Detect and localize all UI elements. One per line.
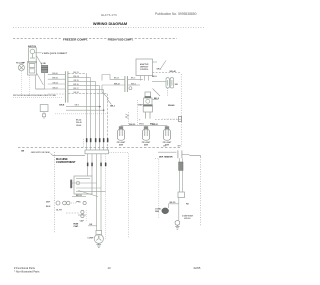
svg-text:OR-15: OR-15 [73,80,78,82]
dashed drop center 2 [137,100,139,126]
wire bend left 2 [101,75,103,81]
wire to x158 drop [155,158,159,218]
cold control box [74,176,92,194]
svg-text:# Functional Parts: # Functional Parts [14,266,36,270]
ice maker plug [41,65,47,72]
freezer lamp [18,65,24,71]
overload circle 2 [66,201,70,205]
wire lower B [66,109,104,111]
wire R6 from terminal board [68,93,108,95]
evap fan body [143,105,152,112]
svg-text:SW: SW [175,84,178,86]
small circle node [129,87,132,90]
wire W5 dashed [48,93,65,95]
dashed wire under fan [155,119,181,121]
svg-text:WH-22: WH-22 [114,83,120,85]
cabinet border dashed right [180,74,182,147]
overload circle 1 [63,201,67,205]
svg-text:BK-13: BK-13 [73,72,78,74]
ADC lead 3 [148,76,150,81]
svg-text:WH-14: WH-14 [73,75,79,78]
cond fan feed [169,204,179,208]
run capacitor circles [81,210,84,213]
machine compartment dashed line [18,146,181,148]
ground right [175,225,179,229]
junction dot B [103,109,105,111]
dashed link [66,212,80,214]
cold control bellows [76,181,80,185]
drop wire 4 [100,154,102,231]
center connector J2 [125,76,128,92]
svg-text:FRESH FOOD COMPT.: FRESH FOOD COMPT. [108,38,134,42]
solid wire to compartment [53,155,85,157]
svg-text:· SEE NOTE ON PAGE: · SEE NOTE ON PAGE [30,151,51,154]
svg-text:13: 13 [108,266,111,270]
dashed wire right [153,72,182,74]
defrost limit squiggle [125,114,128,119]
drop tag 2 [91,163,93,167]
heater bottom box [178,192,184,198]
compressor terminal box [96,230,102,235]
svg-text:BK-3: BK-3 [131,78,135,80]
evap fan body top strip [143,105,152,107]
vertical harness V3 [95,82,97,150]
FF door switch [166,78,174,88]
lamp wire across [121,124,167,126]
terminal board J1 [65,71,68,102]
svg-text:GN-1: GN-1 [110,106,116,108]
wire R1 from terminal board [68,73,87,75]
svg-text:WH-4: WH-4 [131,82,136,85]
evap fan lead right [152,99,158,101]
evap fan motor [144,98,152,105]
wire to compressor [88,225,97,227]
wire W3 to terminal board [48,83,65,85]
svg-text:* Non-Illustrated Parts: * Non-Illustrated Parts [14,269,40,273]
drop wire 2 [91,154,93,176]
svg-text:# WITH QUICK CONNECT: # WITH QUICK CONNECT [42,53,68,55]
ADC lead 1 [140,76,142,81]
svg-text:GN-63: GN-63 [52,87,57,89]
dotted drop from lamp [21,71,23,97]
wire below door switch [167,88,169,96]
svg-text:RD-17: RD-17 [73,88,78,90]
cold control line 1 [76,178,90,180]
drop wire 1 [87,154,89,176]
svg-text:WH-40: WH-40 [170,70,177,73]
adaptive defrost control box [136,59,153,76]
FF lamp 1 [117,127,124,141]
svg-text:EVAP: EVAP [138,103,144,106]
wire center top [102,75,125,80]
svg-text:BK-5: BK-5 [154,98,160,100]
svg-text:Publication No. 5995538850: Publication No. 5995538850 [155,12,197,16]
svg-text:CONTROL: CONTROL [140,69,148,71]
wire to door switch [152,81,167,83]
svg-text:COMP: COMP [87,238,94,240]
svg-text:40W: 40W [144,144,148,147]
svg-text:GN-9: GN-9 [75,105,79,107]
svg-text:BI-M: BI-M [46,206,51,208]
svg-text:BK-44: BK-44 [76,119,81,122]
dotted rule under title [13,27,205,29]
svg-text:CAP: CAP [80,219,85,222]
svg-text:BK-55: BK-55 [170,202,177,204]
svg-text:GN: GN [21,150,25,152]
svg-text:FAN: FAN [155,210,160,213]
vertical harness V2 [90,78,92,150]
fresh food compartment label [107,37,135,41]
cold control line 2 [71,182,97,184]
heater lead 2 [181,158,183,192]
FF lamp 2 stem [145,125,147,126]
svg-text:OR-64: OR-64 [52,81,57,84]
compressor windings [96,239,101,241]
wire bend left [102,85,109,99]
dotted drop from door switch [29,75,31,97]
svg-text:BK-52: BK-52 [76,195,83,197]
evap fan leg 2 [149,112,151,119]
FF lamp 3 stem [166,125,168,126]
ADC lead 2 [144,76,146,81]
wire R4 from terminal board [68,85,100,87]
wire diagonal switch to icemaker [37,56,44,68]
svg-text:FREEZER COMPT.: FREEZER COMPT. [63,38,88,42]
drain heater lead [43,112,45,114]
svg-text:ADAPTIVE: ADAPTIVE [140,63,149,66]
svg-text:BK-21: BK-21 [114,78,119,80]
freezer light switch [29,48,37,63]
tick at wire left [51,153,54,155]
cold control diagonal [78,190,98,196]
drop tag 1 [87,163,89,167]
FF lamp 1 stem [120,125,122,126]
harness color tag 4 [99,138,101,142]
wire switch drop [35,75,37,89]
svg-text:WH-30: WH-30 [129,124,136,126]
svg-text:GN-46: GN-46 [76,124,81,127]
evap fan cap base [145,96,151,98]
svg-text:COMPARTMENT: COMPARTMENT [56,161,76,164]
dashed drop center 1 [128,112,130,126]
ADC right lead [153,61,158,63]
dotted drop right of compressor [105,196,107,240]
wire center mid [102,84,125,86]
condenser fan motor [162,208,169,214]
svg-text:FZ LAMP: FZ LAMP [16,61,25,64]
vertical harness V6 [107,94,109,150]
harness color tag 1 [86,138,88,142]
wire W2 to terminal board [48,78,65,80]
dotted separator line [55,113,109,115]
harness color tag 3 [95,138,97,142]
freezer compartment label [62,37,89,41]
door switch assembly FZ [28,61,37,75]
dashed stub up [83,139,85,147]
heater element [179,162,183,170]
drop tag 3 [100,163,102,167]
vertical harness V4 [99,86,101,150]
harness color tag 5 [103,138,105,142]
wire center top right [128,78,143,80]
defrost thermostat circle [56,201,60,205]
wire W4 to terminal board [36,88,65,90]
harness junction box [85,150,109,154]
svg-text:GN-18: GN-18 [73,92,78,94]
FF lamp 2 [142,127,149,141]
svg-text:BK-66: BK-66 [52,73,57,75]
drain heater box [40,105,48,112]
defrost thermostat bottom [175,220,180,225]
vertical harness V1 [86,74,88,150]
svg-text:DEF. HEATER: DEF. HEATER [159,156,173,159]
cold control line 3 [76,187,101,189]
wire center mid right [128,84,140,86]
thermal fuse lead [43,117,45,119]
door wiring dotted drop [199,157,201,226]
wire to x128 drop [109,153,129,238]
evap fan cap [145,92,151,98]
svg-text:WH-31: WH-31 [152,124,159,126]
vertical harness V5 [103,90,105,150]
compressor ground [96,243,101,247]
evap fan rotor [146,99,150,103]
drop wire 3 [96,154,98,231]
wire W1 to terminal board [48,74,65,76]
svg-text:L55-30: L55-30 [184,218,191,220]
diagonal wire lower left [153,89,161,97]
freezer door dotted line [13,97,62,99]
wire R2 from terminal board [68,77,91,79]
heater lead 1 [178,158,180,192]
wire lower A [66,106,101,108]
relay end circle [83,201,86,204]
heater connector plates [178,150,182,158]
relay chain dashes [71,202,76,204]
wire right corner [189,156,200,157]
svg-text:WH-45: WH-45 [76,121,82,124]
link wire [78,214,86,216]
svg-text:WIRING DIAGRAM: WIRING DIAGRAM [93,21,127,26]
run cap dotted [85,210,87,222]
wire top of relay row [72,196,86,198]
dotted stub right [162,118,181,120]
wire diagonal lower [37,73,44,85]
harness color tag 6 [107,138,109,142]
drop tag 4 [105,163,107,167]
machine compartment dashed left border [53,152,55,233]
svg-text:BR-16: BR-16 [73,84,78,86]
heater feed wire [158,151,176,153]
svg-text:02/05: 02/05 [194,266,201,270]
FF lamp 3 [163,127,170,141]
svg-text:GN-8: GN-8 [59,105,65,107]
connector mark right [179,116,182,121]
svg-text:PTC: PTC [77,201,82,203]
harness color tag 2 [90,138,92,142]
wire R3 from terminal board [68,81,96,83]
heater link wire [182,154,189,156]
wire below box [76,191,106,193]
wire heater to stat [178,198,180,221]
svg-text:CAP.: CAP. [74,225,79,228]
drop wire 5 dotted [105,154,107,196]
cold control terminal bar [70,180,72,189]
svg-text:WH-40: WH-40 [168,104,175,107]
compressor dot [98,236,99,237]
svg-text:40W: 40W [119,144,123,147]
svg-text:# DEF.STAT: # DEF.STAT [182,215,194,218]
quick-connect note pointer [35,52,42,54]
diag wire node [107,99,112,105]
junction dot A [99,106,101,108]
run capacitor circle 2 [81,214,84,217]
svg-text:FRZ DOOR SHOWN FROM REAR VIEW: FRZ DOOR SHOWN FROM REAR VIEW OF CAB [13,94,56,97]
wire R5 from terminal board [68,89,104,91]
thermal fuse [42,114,45,117]
compartment boundary dashed line [13,38,177,40]
compressor motor [94,234,103,243]
wire icemaker down [36,73,45,89]
evap fan leg 1 [145,112,147,119]
svg-text:OL RY: OL RY [56,210,63,212]
wire diag to border [161,61,166,69]
svg-text:ELF73-1T3: ELF73-1T3 [101,13,117,17]
svg-text:WH-65: WH-65 [52,78,58,80]
svg-text:# I.M.: # I.M. [41,63,46,65]
